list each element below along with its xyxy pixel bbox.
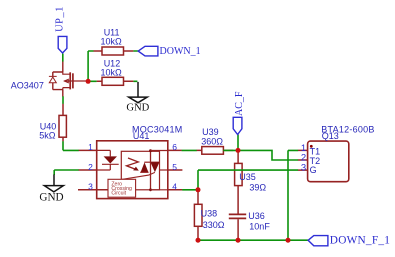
svg-text:39Ω: 39Ω xyxy=(249,183,266,193)
svg-text:Q13: Q13 xyxy=(322,131,339,141)
svg-text:GND: GND xyxy=(39,192,63,204)
svg-text:GND: GND xyxy=(126,102,149,113)
svg-text:10kΩ: 10kΩ xyxy=(101,67,123,77)
svg-text:Circuit: Circuit xyxy=(111,190,126,196)
svg-text:10kΩ: 10kΩ xyxy=(101,36,123,46)
svg-text:1: 1 xyxy=(88,142,93,152)
svg-text:AC_F: AC_F xyxy=(234,91,245,116)
svg-text:6: 6 xyxy=(172,142,177,152)
svg-text:DOWN_1: DOWN_1 xyxy=(160,46,201,57)
svg-text:330Ω: 330Ω xyxy=(203,220,225,230)
svg-text:G: G xyxy=(310,165,317,175)
svg-text:UP_1: UP_1 xyxy=(55,6,66,32)
svg-text:U41: U41 xyxy=(133,131,150,141)
svg-text:2: 2 xyxy=(88,162,93,172)
svg-text:5kΩ: 5kΩ xyxy=(39,130,56,140)
svg-text:AO3407: AO3407 xyxy=(11,80,44,90)
svg-text:U35: U35 xyxy=(239,172,256,182)
svg-text:U38: U38 xyxy=(201,209,218,219)
svg-text:U36: U36 xyxy=(248,211,265,221)
svg-text:4: 4 xyxy=(172,182,177,192)
svg-text:3: 3 xyxy=(301,162,306,173)
svg-text:360Ω: 360Ω xyxy=(201,136,223,146)
svg-text:3: 3 xyxy=(88,182,93,192)
svg-text:10nF: 10nF xyxy=(249,221,270,231)
svg-text:5: 5 xyxy=(172,162,177,172)
svg-text:DOWN_F_1: DOWN_F_1 xyxy=(330,235,390,247)
